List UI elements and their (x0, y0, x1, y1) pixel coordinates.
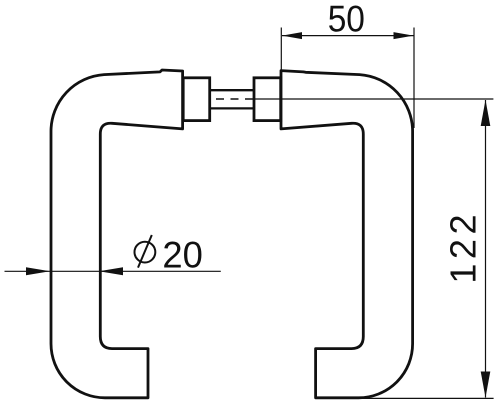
spindle dashed centerline (211, 98, 253, 100)
right lever handle outline (281, 71, 413, 398)
svg-text:50: 50 (328, 0, 365, 40)
diameter 20 arrow left (tip on outer line) (26, 267, 50, 275)
svg-text:20: 20 (162, 234, 202, 276)
diameter 20 dimension line (5, 270, 221, 272)
centerline through right handle (122 top extension) (254, 98, 493, 100)
122 bottom extension line (358, 397, 494, 399)
50 dimension extension line left (280, 28, 282, 74)
50 dimension arrow right (394, 32, 414, 39)
122 dimension arrow bottom (481, 372, 491, 398)
diameter symbol slash (138, 235, 152, 268)
left hub (square rose) (183, 78, 210, 121)
50 dimension arrow left (282, 32, 302, 39)
50 dimension extension line right (413, 28, 415, 129)
left lever handle outline (51, 70, 183, 398)
spindle top line (210, 89, 255, 91)
122 dimension arrow top (481, 100, 491, 126)
50 dimension line (282, 35, 414, 37)
right hub (square rose) (254, 78, 281, 121)
diameter symbol circle (135, 242, 156, 263)
diameter 20 arrow right (tip on inner line) (99, 267, 123, 275)
spindle bottom line (210, 107, 255, 109)
svg-text:122: 122 (443, 210, 484, 284)
122 dimension line (485, 100, 487, 398)
